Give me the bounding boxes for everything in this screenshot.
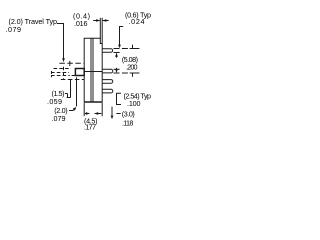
- svg-text:.059: .059: [47, 97, 62, 106]
- svg-text:.177: .177: [84, 122, 96, 131]
- svg-text:.100: .100: [127, 99, 141, 108]
- svg-text:.079: .079: [52, 114, 66, 123]
- svg-text:.118: .118: [122, 118, 133, 127]
- svg-text:.016: .016: [74, 19, 88, 28]
- svg-text:.079: .079: [6, 25, 22, 34]
- svg-text:.024: .024: [129, 17, 145, 26]
- svg-text:(3.0): (3.0): [122, 109, 135, 118]
- svg-text:.200: .200: [126, 62, 138, 71]
